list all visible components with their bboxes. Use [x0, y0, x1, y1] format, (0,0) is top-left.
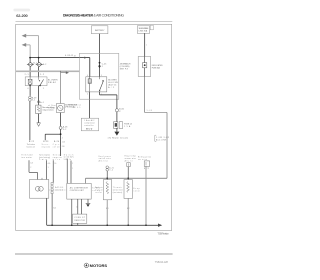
- junction dot motor: [60, 133, 62, 135]
- svg-text:5-LB: 5-LB: [147, 110, 152, 112]
- down arrow filled: [114, 132, 119, 136]
- svg-text:2-1: 2-1: [25, 74, 29, 76]
- footer rule: [15, 253, 173, 255]
- header rule: [16, 21, 173, 23]
- connector circle on motor wire: [59, 126, 62, 129]
- relay output rail right: [38, 86, 40, 106]
- svg-text:CONTROL UNIT: CONTROL UNIT: [70, 190, 84, 192]
- diode box: [73, 214, 87, 223]
- relay output rail left: [29, 86, 31, 96]
- off-page arrow 2: [22, 43, 31, 58]
- svg-text:2: 2: [102, 66, 103, 68]
- footer logo: [84, 263, 107, 268]
- svg-text:1-2: 1-2: [40, 74, 44, 76]
- bcu box: [81, 118, 98, 131]
- rail to relay switch: [38, 58, 40, 63]
- svg-text:Dual press: Dual press: [99, 156, 111, 158]
- col3 wire: [53, 160, 57, 182]
- svg-text:(To Heater Circuit): (To Heater Circuit): [108, 137, 128, 140]
- junction dot A: [29, 57, 31, 59]
- ground bus wire: [47, 224, 159, 226]
- svg-text:B-1: B-1: [106, 208, 109, 210]
- svg-text:ACC LINE: ACC LINE: [156, 138, 167, 141]
- motor output wire: [60, 113, 62, 127]
- svg-text:1: 1: [72, 168, 73, 170]
- right connector wire: [145, 166, 147, 225]
- fuse bracket: [119, 122, 121, 129]
- svg-text:w/ Rear: w/ Rear: [48, 105, 56, 107]
- ac unit output wire 1: [71, 199, 73, 225]
- ignition switch inner box: [86, 75, 107, 96]
- svg-text:resp wire: resp wire: [42, 147, 51, 149]
- svg-text:harness sd: harness sd: [27, 147, 35, 149]
- ac unit output wire 3: [80, 199, 82, 214]
- bus junction dots: [51, 224, 53, 226]
- svg-text:2: 2: [72, 163, 73, 165]
- svg-text:B-24: B-24: [54, 141, 59, 143]
- svg-text:sensor wire: sensor wire: [113, 189, 123, 191]
- wire connector to switch: [99, 63, 101, 77]
- blower motor box: [57, 104, 65, 113]
- connector diamond 1: [28, 62, 33, 66]
- wire to fuse: [116, 112, 118, 122]
- fusible link box B: [137, 26, 149, 34]
- svg-text:Evap: Evap: [134, 188, 140, 190]
- svg-text:CODE ST: CODE ST: [74, 217, 85, 219]
- relay pin dot right: [39, 85, 40, 86]
- sensor column 1 wire: [106, 171, 108, 180]
- off-page arrow 1: [22, 34, 39, 58]
- svg-text:1: 1: [43, 88, 44, 90]
- svg-text:BCU: BCU: [86, 129, 93, 131]
- svg-text:B-22: B-22: [29, 141, 34, 143]
- schematic frame: [16, 24, 172, 230]
- bulkhead gray band: [16, 71, 80, 73]
- main feed wire: [30, 58, 90, 77]
- svg-text:A-1: A-1: [33, 62, 37, 65]
- sensor column 1 connector: [106, 166, 114, 172]
- box2 feed wire b: [71, 161, 73, 184]
- resistor box: [36, 105, 41, 114]
- svg-text:X-1: X-1: [32, 100, 36, 102]
- sensor column 2 connector: [127, 163, 130, 167]
- connector C-05: [98, 62, 106, 68]
- svg-text:TSB-94-128: TSB-94-128: [155, 260, 169, 264]
- off-page arrow right: [61, 71, 69, 74]
- svg-text:A-1: A-1: [40, 101, 44, 104]
- svg-text:X-2: X-2: [63, 129, 67, 131]
- svg-text:Refrig press: Refrig press: [138, 156, 151, 158]
- svg-text:SEE P.8: SEE P.8: [120, 69, 128, 71]
- connector tag box: [150, 25, 153, 29]
- connector diamond 2: [37, 62, 42, 66]
- wire resistor to arrow: [38, 114, 40, 123]
- sensor2 output wire: [127, 198, 130, 225]
- svg-text:sensor: sensor: [95, 189, 103, 191]
- svg-text:FUSE 14: FUSE 14: [124, 124, 132, 126]
- blower relay box: [25, 77, 47, 86]
- right note bracket: [155, 135, 156, 141]
- svg-text:sw wire: sw wire: [138, 159, 147, 161]
- svg-text:62-200: 62-200: [16, 13, 28, 18]
- svg-text:2: 2: [62, 137, 63, 139]
- wire sub fusible link down: [144, 33, 146, 56]
- svg-text:BATTERY: BATTERY: [95, 29, 105, 32]
- svg-text:1.25: 1.25: [62, 142, 65, 144]
- bus arrow: [158, 224, 162, 227]
- svg-text:4: 4: [76, 207, 77, 209]
- svg-text:X-4: X-4: [109, 170, 113, 172]
- svg-text:SUB FUSIBLE: SUB FUSIBLE: [139, 28, 150, 30]
- relay coil: [28, 79, 32, 84]
- ac unit output wire 2: [77, 199, 79, 214]
- svg-text:TSB Revision: TSB Revision: [157, 232, 169, 236]
- svg-text:sensr: sensr: [134, 190, 141, 192]
- branch wire left: [45, 134, 60, 140]
- box2 feed wire a: [66, 159, 68, 184]
- rails through band: [29, 67, 31, 77]
- coil output wire: [89, 92, 91, 118]
- bus wire top: [86, 178, 167, 183]
- bus junction dots: [106, 177, 108, 179]
- connector pair on left rail: [29, 96, 37, 101]
- svg-text:2-wire: 2-wire: [39, 159, 47, 161]
- battery box: [91, 26, 108, 34]
- svg-text:sensor wire: sensor wire: [125, 158, 136, 160]
- right feed wire: [145, 76, 167, 178]
- svg-text:Sensor: Sensor: [53, 154, 62, 156]
- sensor1 output wire: [106, 200, 109, 225]
- mech link dashes: [49, 189, 67, 191]
- svg-text:B-0: B-0: [53, 207, 56, 209]
- thermo sensor box 2: [124, 180, 132, 199]
- switch output wire: [100, 92, 117, 109]
- svg-text:Twin cmprssr: Twin cmprssr: [39, 154, 50, 156]
- svg-text:B-72: B-72: [144, 168, 149, 170]
- scan ghost smudge: [14, 9, 31, 12]
- svg-text:5: 5: [101, 75, 102, 77]
- blower feed rail: [60, 71, 62, 104]
- svg-text:2: 2: [87, 94, 88, 96]
- connector circle B: [115, 109, 118, 112]
- svg-text:1: 1: [48, 167, 49, 169]
- wire fuse to arrow: [116, 128, 118, 131]
- rail to relay coil: [29, 58, 31, 63]
- svg-text:RESISTOR: RESISTOR: [74, 220, 85, 222]
- svg-text:18: 18: [74, 55, 76, 57]
- power transistor box: [30, 178, 49, 198]
- svg-text:A-2: A-2: [43, 63, 47, 66]
- svg-text:DIAGNOSIS-HEATER & AIR CONDITI: DIAGNOSIS-HEATER & AIR CONDITIONING: [63, 13, 124, 17]
- left rail continues: [29, 101, 31, 140]
- svg-text:line 0.5: line 0.5: [71, 107, 80, 109]
- svg-text:A/C COMPRESSOR: A/C COMPRESSOR: [70, 187, 89, 190]
- svg-text:FUSE 30A: FUSE 30A: [152, 66, 161, 69]
- fuse box: [114, 122, 118, 129]
- transistor output wire: [46, 198, 48, 225]
- svg-text:Thrm fusbl: Thrm fusbl: [21, 154, 33, 156]
- svg-text:1: 1: [146, 45, 147, 47]
- svg-text:Sens.: Sens.: [42, 144, 51, 146]
- ground at ac unit: [86, 199, 91, 207]
- sensor column 2 wire: [127, 167, 129, 180]
- relay pin dot left: [29, 85, 30, 86]
- svg-text:4: 4: [87, 75, 88, 77]
- svg-text:MOTORS: MOTORS: [90, 263, 108, 268]
- svg-text:4: 4: [27, 88, 28, 90]
- svg-text:RELAY: RELAY: [48, 81, 57, 84]
- svg-text:B-23: B-23: [43, 141, 48, 143]
- svg-text:1-B: 1-B: [30, 163, 32, 165]
- fusible link component: [138, 57, 151, 77]
- pin strip output wire: [52, 194, 56, 226]
- connector on right rail: [38, 101, 44, 104]
- ac control box: [67, 183, 91, 199]
- wire battery down: [99, 34, 101, 63]
- wire to junction: [60, 129, 62, 156]
- transistor pin strip: [51, 183, 53, 194]
- svg-text:2: 2: [30, 167, 31, 169]
- thermo sensor box 1: [103, 180, 111, 200]
- svg-text:0.85-R: 0.85-R: [65, 55, 74, 57]
- svg-text:Cprsr: Cprsr: [53, 144, 61, 146]
- relay switch contact: [38, 77, 40, 80]
- inline connector: [83, 57, 86, 59]
- down arrow open: [37, 123, 41, 127]
- svg-text:LINK 30A: LINK 30A: [139, 30, 148, 33]
- junction block box: [79, 53, 118, 99]
- junction dot B: [38, 57, 40, 59]
- svg-text:wire: wire: [53, 159, 60, 161]
- svg-text:compressor: compressor: [84, 123, 95, 125]
- col2 wire: [46, 160, 51, 179]
- svg-text:cmprssr: cmprssr: [53, 157, 62, 159]
- svg-text:3-L: 3-L: [54, 163, 56, 165]
- right connector box: [144, 161, 149, 167]
- svg-text:B-2: B-2: [127, 208, 130, 210]
- col1 wire: [29, 160, 37, 179]
